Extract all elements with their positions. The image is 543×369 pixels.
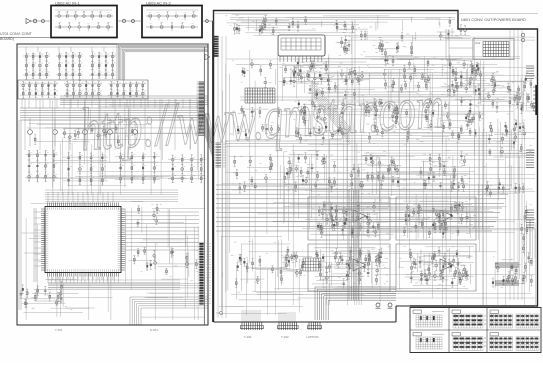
svg-text:U11: U11: [475, 41, 481, 45]
svg-text:U602 AC IN-1: U602 AC IN-1: [55, 0, 80, 5]
svg-text:E-601: E-601: [150, 328, 158, 332]
svg-text:U601 CONV. OUT/POWERS BOARD: U601 CONV. OUT/POWERS BOARD: [461, 17, 526, 22]
svg-text:U701 CONV. CONT: U701 CONV. CONT: [0, 32, 33, 36]
svg-text:T-102: T-102: [281, 335, 289, 339]
svg-text:I-OPTION: I-OPTION: [306, 335, 318, 339]
svg-text:T-601: T-601: [55, 328, 63, 332]
svg-text:T-101: T-101: [244, 335, 252, 339]
svg-text:U603 AC IN-2: U603 AC IN-2: [146, 0, 171, 5]
